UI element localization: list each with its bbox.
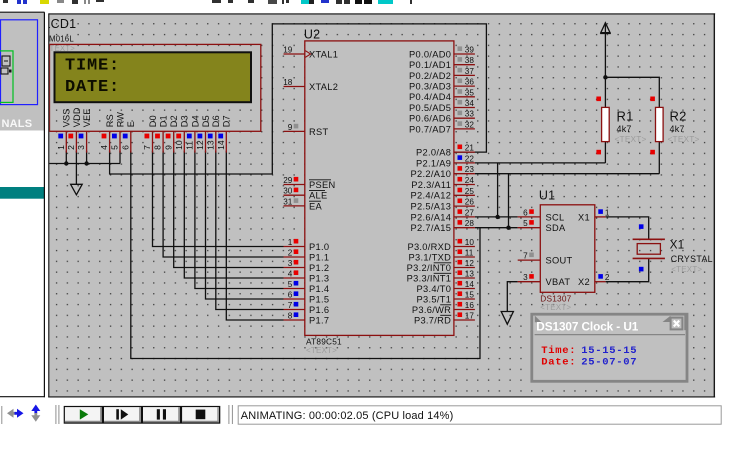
U1 pin 7 SOUT — [518, 252, 573, 266]
svg-text:P3.3/INT1: P3.3/INT1 — [407, 273, 452, 283]
wire D1 to P1.1 — [163, 151, 283, 257]
svg-text:DATE:: DATE: — [65, 78, 120, 97]
svg-text:7: 7 — [523, 252, 528, 261]
svg-text:P2.2/A10: P2.2/A10 — [411, 169, 452, 179]
U2 pin 32 P0.7/AD7 — [409, 120, 475, 134]
svg-text:9: 9 — [163, 145, 173, 150]
svg-text:P1.4: P1.4 — [309, 284, 329, 294]
LCD pin 3 VEE — [76, 108, 92, 152]
wire VCC to R2 — [605, 77, 659, 107]
svg-text:<TEXT>: <TEXT> — [306, 346, 337, 355]
U2 pin 11 P3.1/TXD — [408, 249, 474, 263]
svg-text:VDD: VDD — [72, 107, 82, 127]
svg-text:P3.1/TXD: P3.1/TXD — [408, 252, 451, 262]
svg-text:7: 7 — [288, 301, 293, 310]
sidebar panel — [0, 12, 44, 130]
wire D3 to P1.3 — [184, 151, 283, 278]
svg-text:PSEN: PSEN — [309, 180, 336, 190]
svg-text:4k7: 4k7 — [617, 124, 632, 134]
U2 pin 12 P3.2/INT0 — [407, 259, 475, 273]
svg-text:DS1307: DS1307 — [540, 294, 571, 304]
resistor R1 4k7 — [596, 97, 646, 155]
svg-text:P2.4/A12: P2.4/A12 — [411, 191, 452, 201]
wire D0 to P1.0 — [153, 151, 284, 247]
svg-text:P3.4/T0: P3.4/T0 — [417, 284, 452, 294]
wire E to bottom route — [131, 151, 480, 359]
svg-text:24: 24 — [465, 176, 475, 185]
wire R1 bottom — [604, 142, 606, 163]
svg-text:19: 19 — [283, 46, 293, 55]
U2 pin 26 P2.5/A13 — [411, 198, 475, 212]
ground symbol below LCD — [71, 184, 83, 195]
LCD pin 14 D7 — [216, 115, 232, 153]
U2 pin 9 RST — [284, 123, 329, 137]
svg-text:TIME:: TIME: — [65, 57, 120, 76]
svg-text:11: 11 — [465, 249, 474, 258]
wire ground bus below LCD — [49, 163, 120, 165]
U2 pin 29 PSEN — [283, 176, 335, 190]
svg-text:U1: U1 — [539, 189, 555, 203]
svg-text:3: 3 — [288, 259, 293, 268]
svg-text:P2.7/A15: P2.7/A15 — [411, 223, 452, 233]
svg-text:32: 32 — [465, 120, 475, 129]
svg-text:NALS: NALS — [2, 118, 33, 130]
svg-text:<TEXT>: <TEXT> — [615, 134, 647, 144]
svg-text:23: 23 — [465, 165, 475, 174]
svg-text:4: 4 — [288, 270, 293, 279]
svg-text:3: 3 — [523, 273, 528, 282]
U2 pin 27 P2.6/A14 — [411, 208, 475, 222]
wire D6 to P1.6 — [216, 151, 284, 310]
svg-text:RS: RS — [105, 114, 115, 127]
U2 pin 38 P0.1/AD1 — [409, 56, 475, 70]
stop button — [182, 407, 219, 422]
wire P2.2/A10 to R2 pullup / SDA column — [475, 173, 659, 175]
svg-text:9: 9 — [288, 123, 293, 132]
svg-text:P0.3/AD3: P0.3/AD3 — [409, 82, 451, 92]
svg-text:22: 22 — [465, 154, 475, 163]
svg-text:P2.5/A13: P2.5/A13 — [411, 202, 452, 212]
LCD LCD1 body — [50, 44, 261, 131]
U2 pin 37 P0.2/AD2 — [409, 67, 475, 81]
LCD pin 8 D1 — [153, 115, 169, 153]
svg-text:VBAT: VBAT — [546, 277, 571, 287]
svg-text:16: 16 — [465, 301, 475, 310]
svg-text:VSS: VSS — [62, 108, 72, 127]
power VCC symbol — [604, 23, 606, 78]
U2 pin 5 P1.4 — [284, 280, 330, 294]
U2 pin 18 XTAL2 — [283, 78, 338, 92]
U2 pin 19 XTAL1 — [283, 46, 338, 60]
U2 pin 10 P3.0/RXD — [407, 238, 474, 252]
svg-text:D2: D2 — [169, 115, 179, 127]
svg-text:8: 8 — [153, 145, 163, 150]
sheet right border — [713, 13, 715, 397]
U2 pin 17 P3.7/RD — [414, 312, 475, 326]
U1 pin 2 X2 — [578, 273, 610, 287]
svg-text:AT89C51: AT89C51 — [306, 337, 342, 347]
svg-text:P0.0/AD0: P0.0/AD0 — [409, 49, 451, 59]
preview component sketches — [2, 56, 10, 66]
U2 pin 22 P2.1/A9 — [416, 154, 475, 168]
play button — [65, 407, 102, 422]
svg-text:Time:: Time: — [541, 345, 576, 357]
U2 pin 33 P0.6/AD6 — [409, 110, 475, 124]
svg-text:D5: D5 — [201, 115, 211, 127]
wire D2 to P1.2 — [174, 151, 284, 268]
svg-text:SCL: SCL — [546, 212, 565, 222]
svg-text:P3.0/RXD: P3.0/RXD — [407, 242, 451, 252]
svg-text:ALE: ALE — [309, 191, 327, 201]
step button — [104, 407, 141, 422]
svg-text:P2.3/A11: P2.3/A11 — [411, 180, 451, 190]
junction SCL — [495, 215, 499, 219]
svg-text:XTAL1: XTAL1 — [309, 49, 338, 59]
svg-text:Date:: Date: — [541, 356, 576, 368]
svg-text:P1.1: P1.1 — [309, 252, 329, 262]
U2 pin 16 P3.6/WR — [412, 301, 475, 315]
svg-text:RW: RW — [115, 112, 125, 128]
svg-text:38: 38 — [465, 56, 475, 65]
LCD pin 4 RS — [99, 114, 115, 153]
U2 pin 28 P2.7/A15 — [411, 219, 475, 233]
U1 pin 1 X1 — [578, 208, 610, 222]
svg-text:P3.5/T1: P3.5/T1 — [417, 294, 452, 304]
svg-text:34: 34 — [465, 99, 475, 108]
svg-text:39: 39 — [465, 46, 475, 55]
junction VEE — [84, 161, 88, 165]
svg-text:25-07-07: 25-07-07 — [581, 356, 637, 368]
wire P2.0/A8 stub link — [454, 151, 475, 153]
svg-text:P0.5/AD5: P0.5/AD5 — [409, 103, 451, 113]
svg-text:30: 30 — [283, 187, 293, 196]
svg-text:RST: RST — [309, 127, 329, 137]
svg-text:4k7: 4k7 — [670, 124, 685, 134]
svg-text:17: 17 — [465, 312, 475, 321]
svg-text:P1.3: P1.3 — [309, 273, 329, 283]
LCD pin 2 VDD — [66, 107, 82, 153]
svg-text:P3.2/INT0: P3.2/INT0 — [407, 263, 452, 273]
svg-text:10: 10 — [174, 140, 184, 150]
LCD pin 6 E — [120, 121, 136, 153]
svg-text:D1: D1 — [159, 115, 169, 127]
DS1307 Clock popup window — [532, 314, 688, 381]
U2 pin 36 P0.3/AD3 — [409, 78, 475, 92]
U2 pin 39 P0.0/AD0 — [409, 46, 475, 60]
svg-text:P0.4/AD4: P0.4/AD4 — [409, 92, 451, 102]
LCD pin 13 D6 — [205, 115, 221, 153]
svg-text:D3: D3 — [180, 115, 190, 127]
junction VCC — [603, 75, 607, 79]
ground symbol below U1 — [501, 312, 513, 325]
svg-text:25: 25 — [465, 187, 475, 196]
LCD pin 7 D0 — [142, 115, 158, 153]
svg-text:P0.1/AD1: P0.1/AD1 — [409, 60, 451, 70]
selected item highlight — [0, 187, 44, 199]
svg-text:P1.0: P1.0 — [309, 242, 329, 252]
LCD pin 11 D4 — [185, 115, 201, 153]
U2 pin 6 P1.5 — [284, 291, 330, 305]
svg-text:14: 14 — [465, 280, 475, 289]
U2 pin 2 P1.1 — [284, 249, 330, 263]
svg-text:35: 35 — [465, 88, 475, 97]
wire D7 to P1.7 — [226, 151, 283, 320]
U1 pin 5 SDA — [518, 219, 566, 233]
wire P2.1/A9 to R1 pullup / SCL column — [475, 162, 606, 164]
U2 pin 31 EA — [283, 197, 322, 211]
U2 pin 24 P2.3/A11 — [411, 176, 475, 190]
LCD screen — [55, 52, 252, 102]
wire SCL net P2.6 to U1 — [475, 216, 518, 218]
U2 pin 1 P1.0 — [284, 238, 330, 252]
svg-text:13: 13 — [205, 140, 215, 150]
svg-text:XTAL2: XTAL2 — [309, 82, 338, 92]
svg-text:2: 2 — [288, 249, 293, 258]
wire VCC to R1 — [604, 77, 606, 107]
svg-text:1: 1 — [288, 238, 293, 247]
wire RW drop — [119, 151, 121, 164]
svg-text:3: 3 — [76, 145, 86, 150]
U2 pin 14 P3.4/T0 — [417, 280, 475, 294]
svg-text:7: 7 — [142, 145, 152, 150]
svg-text:13: 13 — [465, 270, 475, 279]
svg-text:VEE: VEE — [82, 108, 92, 127]
resistor R2 4k7 — [650, 97, 699, 155]
U1 pin 3 VBAT — [518, 273, 571, 287]
svg-text:6: 6 — [523, 208, 528, 217]
U2 pin 35 P0.4/AD4 — [409, 88, 475, 102]
bottom toolbar — [2, 405, 721, 425]
svg-text:2: 2 — [605, 273, 610, 282]
svg-text:<TEXT>: <TEXT> — [668, 134, 700, 144]
svg-text:CRYSTAL: CRYSTAL — [671, 254, 713, 264]
svg-text:E: E — [126, 121, 136, 127]
svg-text:R1: R1 — [617, 108, 634, 123]
svg-text:D0: D0 — [148, 115, 158, 127]
svg-text:X1: X1 — [670, 238, 685, 252]
pause button — [143, 407, 180, 422]
svg-text:29: 29 — [283, 176, 293, 185]
wire D4 to P1.4 — [195, 151, 284, 289]
svg-text:26: 26 — [465, 198, 475, 207]
svg-text:P0.7/AD7: P0.7/AD7 — [409, 124, 451, 134]
wire U1 X2 to crystal — [606, 258, 649, 281]
wire VSS drop — [65, 151, 67, 164]
LCD pin 1 VSS — [56, 108, 72, 152]
svg-text:ANIMATING: 00:00:02.05 (CPU lo: ANIMATING: 00:00:02.05 (CPU load 14%) — [241, 410, 454, 422]
wire VEE drop — [86, 151, 88, 164]
U2 XTAL1 clock mark — [305, 51, 310, 58]
svg-text:12: 12 — [465, 259, 475, 268]
svg-text:5: 5 — [288, 280, 293, 289]
wire VDD column to ground — [75, 151, 77, 185]
svg-text:27: 27 — [465, 208, 475, 217]
svg-text:14: 14 — [216, 140, 226, 150]
svg-text:X2: X2 — [578, 277, 590, 287]
svg-text:1: 1 — [56, 145, 66, 150]
wire U1 X1 to crystal — [606, 217, 649, 239]
U2 pin 3 P1.2 — [284, 259, 330, 273]
svg-text:P0.6/AD6: P0.6/AD6 — [409, 114, 451, 124]
svg-text:6: 6 — [120, 145, 130, 150]
U2 pin 8 P1.7 — [284, 312, 330, 326]
simulation button panel — [64, 406, 221, 424]
svg-text:R2: R2 — [670, 108, 687, 123]
svg-text:6: 6 — [288, 291, 293, 300]
svg-text:18: 18 — [283, 78, 293, 87]
svg-text:P1.2: P1.2 — [309, 263, 329, 273]
svg-text:X1: X1 — [578, 212, 590, 222]
svg-text:P1.5: P1.5 — [309, 294, 329, 304]
popup close button — [671, 318, 683, 330]
svg-text:D4: D4 — [190, 115, 200, 127]
svg-text:<TEXT>: <TEXT> — [671, 265, 702, 274]
U2 pin 30 ALE — [283, 187, 327, 201]
svg-text:37: 37 — [465, 67, 475, 76]
svg-text:4: 4 — [99, 145, 109, 150]
svg-text:P1.7: P1.7 — [309, 315, 329, 325]
wire SDA net P2.7 to U1 — [475, 227, 518, 229]
U1 pin 6 SCL — [518, 208, 565, 222]
svg-text:15: 15 — [465, 291, 475, 300]
toolbar icon fragments (bottom edge of cropped toolbar) — [3, 0, 8, 3]
svg-text:5: 5 — [523, 219, 528, 228]
U2 pin 21 P2.0/A8 — [416, 144, 475, 158]
LCD pin 9 D2 — [163, 115, 179, 153]
svg-text:10: 10 — [465, 238, 475, 247]
svg-text:1: 1 — [605, 208, 610, 217]
overview preview window — [1, 20, 38, 105]
wire D5 to P1.5 — [206, 151, 284, 299]
wire RS to P2.0/A8 (long loop) — [110, 24, 487, 174]
junction VSS — [64, 161, 68, 165]
svg-text:21: 21 — [465, 144, 475, 153]
svg-text:P3.7/RD: P3.7/RD — [414, 315, 451, 325]
svg-text:5: 5 — [110, 145, 120, 150]
svg-text:U2: U2 — [304, 28, 320, 42]
mirror horizontal icon — [7, 409, 24, 418]
editor canvas sheet — [48, 13, 715, 397]
svg-text:36: 36 — [465, 78, 475, 87]
LCD pin 5 RW — [110, 112, 126, 153]
svg-text:8: 8 — [288, 312, 293, 321]
wire R2 bottom — [658, 142, 660, 174]
svg-text:31: 31 — [283, 197, 293, 206]
U2 pin 34 P0.5/AD5 — [409, 99, 475, 113]
crystal X1 — [633, 224, 665, 271]
U2 pin 7 P1.6 — [284, 301, 330, 315]
svg-text:P2.0/A8: P2.0/A8 — [416, 148, 451, 158]
wire VBAT to ground — [507, 282, 517, 312]
svg-text:28: 28 — [465, 219, 475, 228]
svg-text:11: 11 — [185, 141, 195, 150]
svg-text:P1.6: P1.6 — [309, 305, 329, 315]
svg-text:P0.2/AD2: P0.2/AD2 — [409, 71, 451, 81]
junction SDA — [506, 226, 510, 230]
U2 pin 4 P1.3 — [284, 270, 330, 284]
mirror vertical icon — [31, 405, 40, 422]
svg-text:<TEXT>: <TEXT> — [540, 303, 571, 312]
svg-text:P2.1/A9: P2.1/A9 — [416, 158, 451, 168]
U2 pin 25 P2.4/A12 — [411, 187, 475, 201]
sidebar object list — [0, 131, 44, 397]
svg-text:SOUT: SOUT — [546, 256, 573, 266]
svg-text:DS1307 Clock - U1: DS1307 Clock - U1 — [536, 319, 638, 333]
svg-text:SDA: SDA — [546, 223, 567, 233]
U2 pin 23 P2.2/A10 — [411, 165, 475, 179]
U2 pin 15 P3.5/T1 — [417, 291, 475, 305]
LCD pin 12 D5 — [195, 115, 211, 153]
svg-text:33: 33 — [465, 110, 475, 119]
svg-text:P3.6/WR: P3.6/WR — [412, 305, 451, 315]
status message box — [238, 406, 721, 424]
LCD pin 10 D3 — [174, 115, 190, 153]
svg-text:2: 2 — [66, 145, 76, 150]
svg-text:EA: EA — [309, 201, 323, 211]
svg-text:12: 12 — [195, 140, 205, 150]
svg-text:D6: D6 — [211, 115, 221, 127]
U2 pin 13 P3.3/INT1 — [407, 270, 475, 284]
svg-text:P2.6/A14: P2.6/A14 — [411, 212, 452, 222]
svg-text:15-15-15: 15-15-15 — [581, 345, 637, 357]
svg-text:D7: D7 — [222, 115, 232, 127]
